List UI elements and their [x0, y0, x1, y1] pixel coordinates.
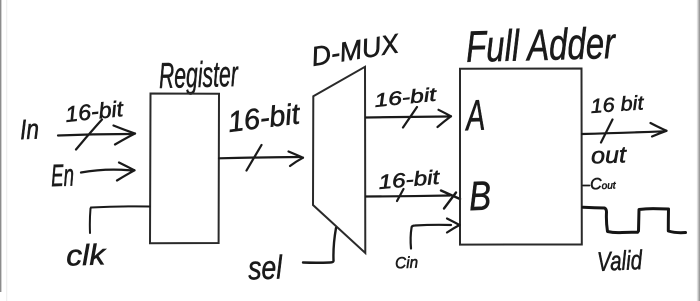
- bus slash on register output: [247, 145, 262, 171]
- demux U2 body: [313, 67, 365, 253]
- valid waveform: [583, 207, 686, 233]
- svg-text:16-bit: 16-bit: [226, 98, 303, 139]
- wire register to demux: [219, 157, 300, 158]
- svg-text:16 bit: 16 bit: [590, 92, 646, 118]
- svg-text:Full Adder: Full Adder: [465, 19, 617, 72]
- wire out from full adder: [582, 131, 664, 134]
- bus slash on B bus: [397, 189, 404, 201]
- full adder U3 box: [460, 69, 582, 245]
- svg-text:B: B: [468, 173, 492, 220]
- svg-text:16-bit: 16-bit: [378, 167, 442, 194]
- wire demux to A: [366, 117, 448, 118]
- svg-text:out: out: [591, 141, 629, 168]
- svg-text:16-bit: 16-bit: [373, 85, 438, 112]
- faint inner left line: [6, 0, 7, 301]
- wire In arrow: [58, 134, 133, 136]
- svg-text:A: A: [463, 92, 486, 141]
- bus slash on out bus: [601, 120, 613, 143]
- bus slash on A bus: [403, 107, 417, 128]
- register U1 box: [150, 94, 219, 244]
- wire En arrow: [81, 170, 132, 173]
- svg-text:clk: clk: [66, 239, 108, 272]
- right screen edge: [697, 0, 700, 301]
- svg-text:sel: sel: [247, 248, 284, 286]
- wire sel to demux: [303, 228, 336, 263]
- wire demux to B: [366, 196, 450, 197]
- svg-text:Cin: Cin: [395, 255, 419, 273]
- wire clk to register: [90, 206, 150, 233]
- svg-text:D-MUX: D-MUX: [309, 28, 402, 72]
- pin Cout stub: [583, 185, 590, 187]
- svg-text:Valid: Valid: [596, 245, 643, 277]
- wire Cin to full adder: [411, 225, 451, 249]
- svg-text:Cout: Cout: [590, 175, 617, 193]
- bus slash on In wire: [76, 120, 102, 150]
- svg-text:In: In: [19, 114, 39, 146]
- svg-text:En: En: [50, 158, 74, 194]
- left screen edge: [0, 0, 2, 292]
- svg-text:16-bit: 16-bit: [64, 96, 125, 127]
- svg-text:Register: Register: [158, 53, 239, 96]
